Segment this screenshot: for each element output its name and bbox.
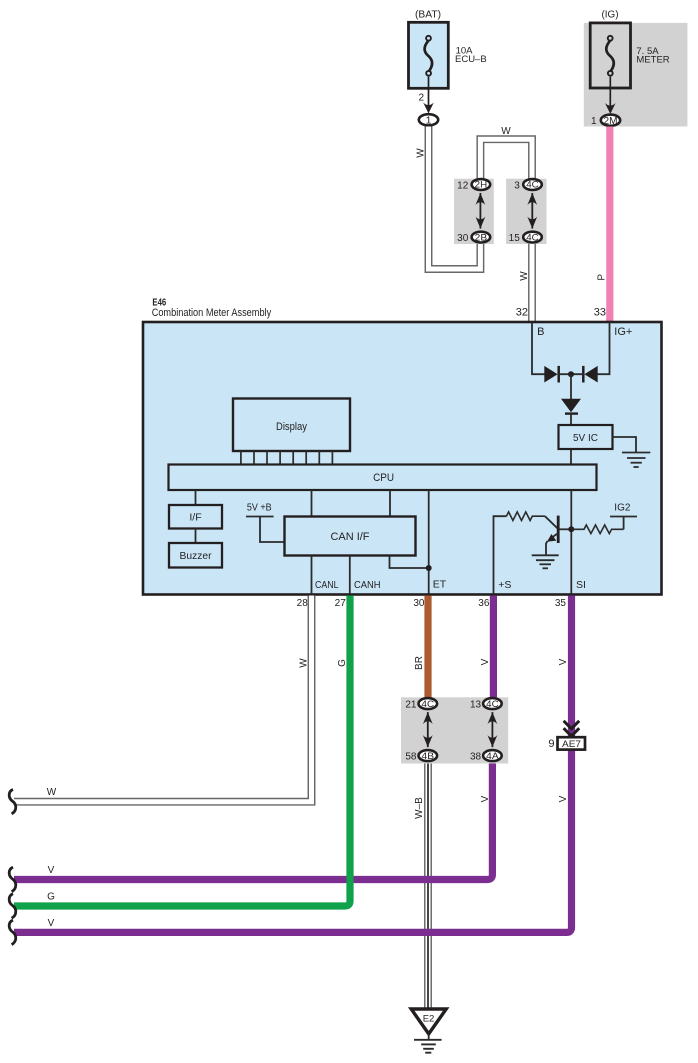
- svg-text:5V IC: 5V IC: [573, 432, 598, 444]
- in-line connector chevrons AE7: [564, 721, 580, 736]
- wire CAN I/F to ET junction: [390, 556, 429, 569]
- pass-through arrows 4C-4B: [423, 712, 433, 747]
- svg-text:28: 28: [297, 598, 309, 609]
- pass-through arrows 4C-4A: [488, 712, 498, 747]
- svg-text:Buzzer: Buzzer: [180, 550, 212, 562]
- label BR (vertical): [414, 656, 425, 670]
- svg-text:(IG): (IG): [602, 9, 619, 20]
- power tap IG2: [610, 502, 637, 529]
- wire W: 2H up, right, down to 4C pin 3: [480, 139, 532, 184]
- arrowhead into connector 1: [423, 103, 434, 114]
- pass-through arrows 4C-4C: [527, 193, 537, 229]
- wire D3 to 5V IC: [570, 414, 572, 426]
- fuse METER box: [590, 23, 630, 88]
- svg-text:SI: SI: [576, 579, 586, 591]
- connector oval 4C pin 13: [470, 698, 502, 710]
- wire W pin28 down-left to break: [14, 596, 312, 802]
- junction block left gray: [454, 179, 494, 244]
- label V (vertical, below AE7): [558, 795, 569, 802]
- connector oval 4B pin 58: [405, 750, 437, 762]
- fuse ECU-B box: [409, 22, 449, 88]
- fuse ECU-B element symbol: [425, 36, 433, 76]
- svg-text:G: G: [337, 659, 348, 667]
- svg-text:METER: METER: [636, 55, 669, 66]
- svg-text:4A: 4A: [486, 751, 499, 762]
- svg-text:5V +B: 5V +B: [247, 503, 272, 514]
- wire W: connector 1 down, right, up to 2B: [429, 127, 481, 270]
- svg-text:W–B: W–B: [414, 797, 425, 819]
- svg-text:21: 21: [405, 700, 417, 711]
- pin number 30: [413, 598, 425, 609]
- label G (horizontal near break): [47, 892, 55, 903]
- pin number 32: [516, 307, 528, 319]
- svg-text:3: 3: [514, 180, 520, 191]
- svg-text:30: 30: [457, 233, 469, 244]
- label E46 Combination Meter Assembly: [152, 298, 272, 319]
- wire ET: CPU to pin 30: [428, 490, 430, 594]
- regulator 5V IC: [559, 425, 613, 449]
- svg-text:33: 33: [594, 307, 606, 319]
- label B: [537, 326, 544, 338]
- label W-B (vertical): [414, 797, 425, 819]
- ground (5V IC): [622, 453, 650, 468]
- svg-text:13: 13: [470, 700, 482, 711]
- resistor R1 (base): [506, 512, 545, 521]
- svg-text:ECU–B: ECU–B: [455, 54, 487, 65]
- label W: [416, 148, 427, 158]
- svg-text:58: 58: [405, 752, 417, 763]
- connector oval 2B pin 30: [457, 232, 490, 244]
- wire CPU to CAN I/F (right): [389, 490, 391, 517]
- svg-text:15: 15: [509, 233, 521, 244]
- wire CAN I/F to CANH pin: [349, 556, 351, 595]
- svg-text:V: V: [480, 795, 491, 802]
- svg-text:B: B: [537, 326, 544, 338]
- label V (vertical): [480, 658, 491, 665]
- wire 5V IC to ground: [613, 437, 637, 453]
- wire break squiggle (V upper): [9, 867, 16, 892]
- label (IG): [602, 9, 619, 20]
- ground E2 triangle: [411, 1009, 446, 1034]
- resistor R2 (IG2): [571, 525, 623, 534]
- svg-text:CPU: CPU: [373, 472, 394, 484]
- display unit: [233, 399, 350, 452]
- pin number 9: [548, 738, 554, 750]
- pin label +S: [498, 579, 511, 591]
- svg-text:(BAT): (BAT): [415, 10, 441, 21]
- svg-text:9: 9: [548, 738, 554, 750]
- diode D3 (series, pointing down): [561, 399, 581, 414]
- node IG+ wire: [596, 322, 610, 374]
- wire P pink from 2M to pin 33: [606, 127, 613, 322]
- label W (horizontal near break): [47, 787, 57, 798]
- label W: [501, 126, 511, 137]
- svg-text:+S: +S: [498, 579, 511, 591]
- svg-text:V: V: [48, 865, 55, 876]
- svg-text:4C: 4C: [486, 699, 499, 710]
- label IG+: [614, 326, 632, 338]
- ground hatch (E2): [414, 1040, 442, 1053]
- junction dot ET: [426, 565, 432, 571]
- svg-text:4C: 4C: [526, 232, 539, 243]
- pin label CANH: [354, 579, 381, 591]
- label 7.5A METER: [636, 46, 669, 66]
- wire break squiggle (V lower): [9, 920, 16, 945]
- wire V pin35 through AE7 down-left to break: [14, 596, 572, 933]
- label 10A ECU-B: [455, 46, 487, 66]
- wire break squiggle (W): [9, 789, 16, 814]
- ground (transistor emitter): [532, 555, 559, 568]
- svg-text:CAN I/F: CAN I/F: [331, 531, 370, 543]
- wire BR pin30 to 4C: [424, 596, 431, 704]
- svg-text:ET: ET: [433, 579, 447, 591]
- svg-text:W: W: [519, 271, 530, 281]
- pin number 2: [418, 92, 424, 103]
- wire fuse METER to connector 2M: [609, 77, 611, 109]
- label (BAT): [415, 10, 441, 21]
- wire SI: CPU to pin 35: [570, 490, 572, 594]
- svg-text:BR: BR: [414, 656, 425, 670]
- svg-text:2B: 2B: [475, 232, 488, 243]
- svg-text:30: 30: [413, 598, 425, 609]
- label G (vertical): [337, 659, 348, 667]
- display to CPU pin ticks: [241, 451, 333, 465]
- svg-text:G: G: [47, 892, 55, 903]
- wire CAN I/F to CANL pin: [311, 556, 313, 595]
- node B wire: [532, 322, 546, 374]
- wire junction to diode D3: [570, 374, 572, 399]
- pin label ET: [433, 579, 447, 591]
- pin number 28: [297, 598, 309, 609]
- label P: [596, 274, 607, 281]
- block I/F: [169, 505, 222, 529]
- svg-text:E2: E2: [423, 1013, 435, 1024]
- pin number 36: [478, 598, 490, 609]
- junction node dot: [568, 371, 574, 377]
- label V (horizontal near break): [48, 865, 55, 876]
- svg-text:W: W: [299, 658, 310, 668]
- connector gray block 4C/4B/4A: [401, 697, 508, 763]
- svg-text:4C: 4C: [422, 699, 435, 710]
- svg-text:27: 27: [335, 598, 347, 609]
- wire CPU to CAN I/F (left): [311, 490, 313, 517]
- svg-text:CANL: CANL: [315, 579, 339, 591]
- transistor Q1 bar: [557, 516, 560, 543]
- junction block right gray: [506, 179, 546, 244]
- svg-text:W: W: [416, 148, 427, 158]
- connector oval 4C pin 3: [514, 179, 542, 191]
- wire 5V IC to CPU: [570, 450, 572, 465]
- svg-text:4C: 4C: [526, 180, 539, 191]
- diode D2 (from IG+): [583, 366, 597, 383]
- svg-text:CANH: CANH: [354, 579, 381, 591]
- label W: [519, 271, 530, 281]
- gray block IG fuse area: [584, 23, 688, 127]
- wire V from 4A down-left to break: [14, 762, 492, 880]
- svg-text:12: 12: [457, 180, 469, 191]
- svg-text:I/F: I/F: [189, 512, 201, 524]
- svg-text:P: P: [596, 274, 607, 281]
- pin label SI: [576, 579, 586, 591]
- connector oval 1: [419, 114, 438, 126]
- svg-text:1: 1: [591, 116, 597, 127]
- wire break squiggle (G): [9, 894, 16, 919]
- svg-text:2H: 2H: [475, 180, 488, 191]
- svg-text:IG+: IG+: [614, 326, 632, 338]
- CPU bar: [169, 465, 597, 491]
- svg-text:1: 1: [426, 115, 432, 127]
- svg-text:2M: 2M: [604, 116, 618, 127]
- connector oval 2M: [601, 115, 620, 127]
- svg-text:4B: 4B: [422, 751, 435, 762]
- svg-text:W: W: [501, 126, 511, 137]
- power tap 5V +B: [246, 503, 285, 542]
- connector oval 2H pin 12: [457, 179, 490, 191]
- wire CPU to I/F: [195, 490, 197, 505]
- pass-through arrows 2H-2B: [476, 193, 486, 229]
- connector oval 4A pin 38: [470, 750, 502, 762]
- svg-text:Combination Meter Assembly: Combination Meter Assembly: [152, 307, 272, 319]
- svg-text:V: V: [480, 658, 491, 665]
- connector oval 4C pin 21: [405, 698, 437, 710]
- pin number 27: [335, 598, 347, 609]
- wire E2 apex to ground: [428, 1034, 430, 1040]
- svg-text:IG2: IG2: [614, 502, 631, 513]
- svg-text:38: 38: [470, 752, 482, 763]
- connector oval 4C pin 15: [509, 232, 542, 244]
- block Buzzer: [169, 543, 222, 568]
- wire fuse ECU-B to connector 1: [428, 77, 430, 108]
- pin number 1: [591, 116, 597, 127]
- junction dot SI/collector: [568, 526, 574, 532]
- pin label CANL: [315, 579, 339, 591]
- wire +S up to resistor: [494, 516, 507, 594]
- wire W: 4C pin 15 down to pin 32: [528, 237, 536, 321]
- wire I/F to Buzzer: [195, 529, 197, 544]
- svg-text:36: 36: [478, 598, 490, 609]
- transistor Q1 emitter lead with arrow: [546, 533, 558, 555]
- wire V pin36 to 4C: [490, 596, 497, 704]
- pin number 33: [594, 307, 606, 319]
- wire diode junction: [559, 373, 584, 375]
- fuse METER element symbol: [606, 36, 614, 76]
- svg-text:2: 2: [418, 92, 424, 103]
- arrowhead into connector 2M: [605, 103, 616, 114]
- transistor Q1 base lead: [545, 516, 558, 528]
- diode D1 (from B): [544, 366, 558, 383]
- pin number 35: [555, 598, 567, 609]
- svg-text:32: 32: [516, 307, 528, 319]
- label V (horizontal near break): [48, 918, 55, 929]
- svg-text:W: W: [47, 787, 57, 798]
- svg-text:AE7: AE7: [562, 739, 581, 750]
- transistor Q1 collector lead: [559, 528, 571, 530]
- wire G pin27 down-left to break: [14, 596, 350, 907]
- combination meter assembly box E46: [143, 322, 662, 595]
- svg-text:Display: Display: [276, 421, 307, 433]
- svg-text:V: V: [558, 658, 569, 665]
- wire W-B: 4B down to E2: [424, 762, 432, 1010]
- svg-text:V: V: [558, 795, 569, 802]
- svg-text:35: 35: [555, 598, 567, 609]
- label V (vertical, above AE7): [558, 658, 569, 665]
- svg-text:V: V: [48, 918, 55, 929]
- connector box AE7: [558, 737, 586, 750]
- label V (vertical below 4A): [480, 795, 491, 802]
- label W (vertical): [299, 658, 310, 668]
- block CAN I/F: [285, 517, 416, 556]
